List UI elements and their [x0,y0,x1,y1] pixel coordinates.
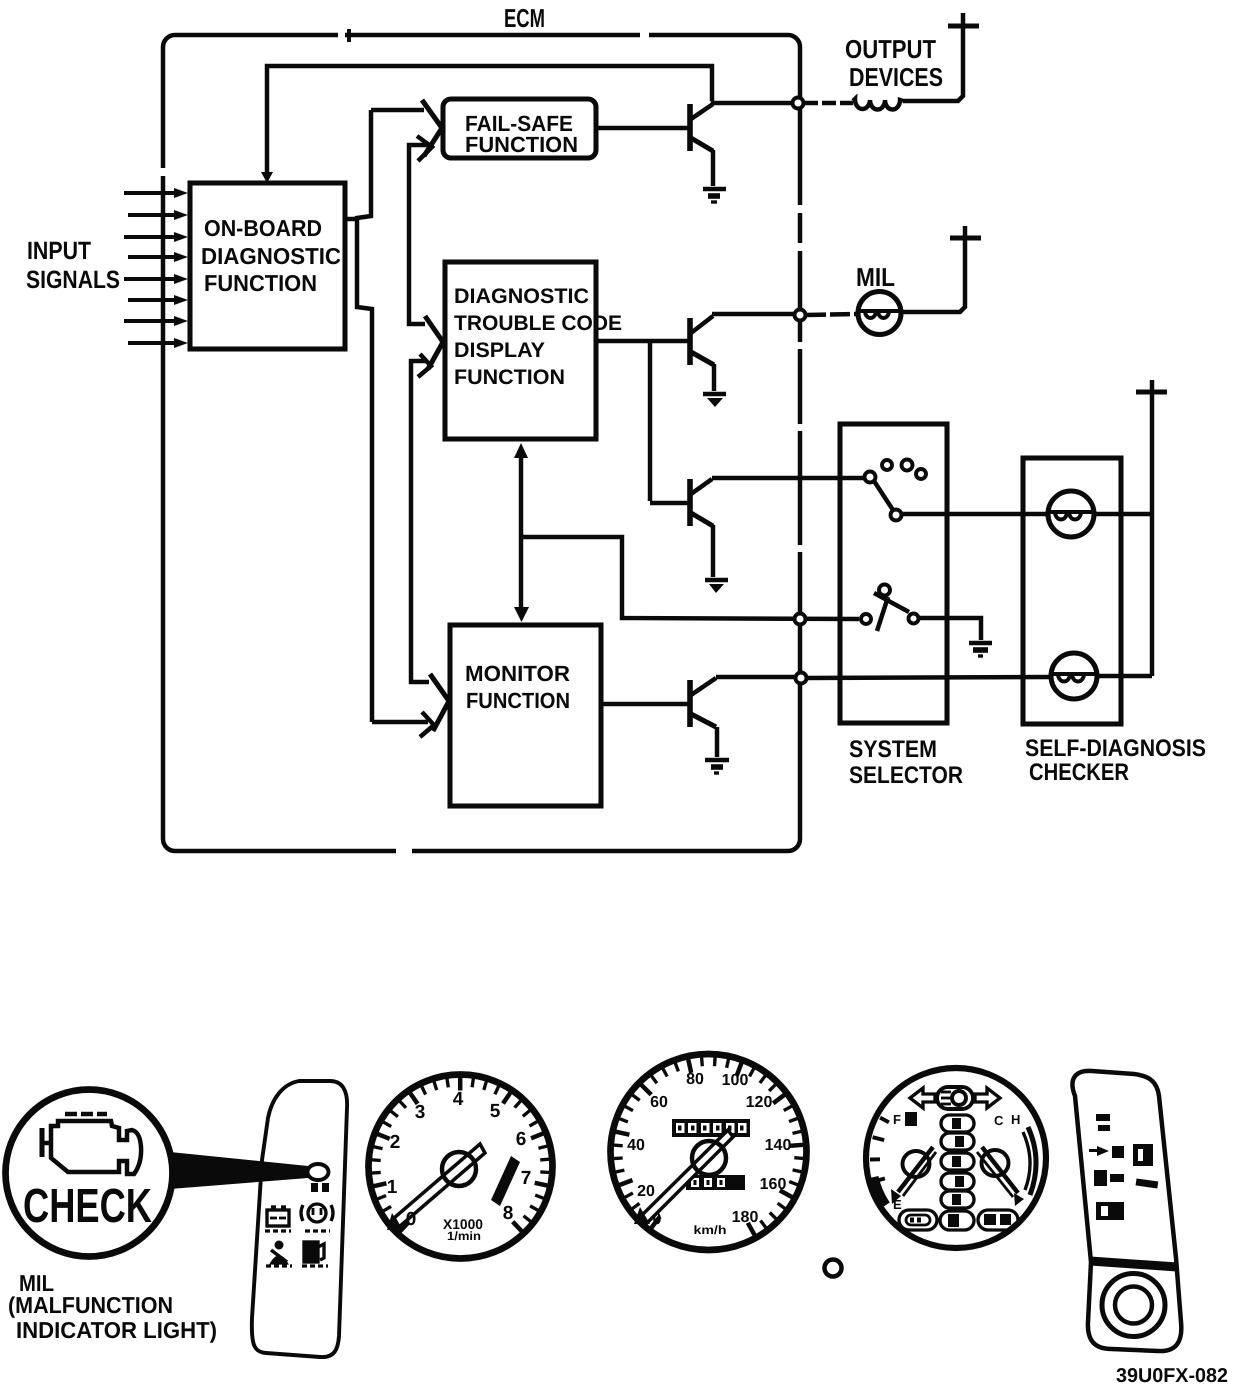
svg-text:MIL: MIL [856,262,895,292]
svg-text:OUTPUT: OUTPUT [845,34,936,64]
svg-text:40: 40 [627,1137,645,1154]
svg-text:H: H [1011,1112,1020,1127]
svg-text:FUNCTION: FUNCTION [454,366,565,389]
svg-text:DIAGNOSTIC: DIAGNOSTIC [201,243,341,269]
svg-text:0: 0 [406,1209,417,1230]
svg-text:km/h: km/h [694,1223,727,1237]
svg-text:0: 0 [653,1211,662,1228]
svg-text:DISPLAY: DISPLAY [454,339,545,362]
svg-text:SIGNALS: SIGNALS [26,266,120,294]
svg-text:SELF-DIAGNOSIS: SELF-DIAGNOSIS [1025,735,1206,762]
svg-text:1: 1 [387,1177,398,1198]
svg-text:INPUT: INPUT [27,237,91,265]
svg-text:20: 20 [637,1183,655,1200]
svg-text:CHECK: CHECK [23,1180,152,1233]
svg-text:SYSTEM: SYSTEM [849,736,937,763]
svg-text:7: 7 [521,1168,532,1189]
svg-text:C: C [994,1113,1004,1128]
svg-text:8: 8 [503,1203,514,1224]
svg-text:TROUBLE CODE: TROUBLE CODE [454,312,622,335]
svg-text:MONITOR: MONITOR [465,661,570,686]
svg-text:FUNCTION: FUNCTION [465,132,578,157]
svg-text:2: 2 [390,1132,401,1153]
svg-text:DIAGNOSTIC: DIAGNOSTIC [454,285,589,308]
svg-text:80: 80 [686,1071,704,1088]
svg-text:ECM: ECM [504,3,545,33]
svg-text:180: 180 [732,1209,759,1226]
svg-text:120: 120 [746,1094,773,1111]
svg-text:140: 140 [765,1137,792,1154]
svg-text:(MALFUNCTION: (MALFUNCTION [8,1292,173,1318]
svg-text:FUNCTION: FUNCTION [466,688,570,713]
svg-text:DEVICES: DEVICES [849,62,943,92]
svg-text:CHECKER: CHECKER [1029,759,1129,786]
svg-text:3: 3 [415,1102,426,1123]
svg-text:SELECTOR: SELECTOR [849,762,963,789]
svg-text:4: 4 [453,1089,464,1110]
svg-text:39U0FX-082: 39U0FX-082 [1116,1365,1228,1387]
svg-text:100: 100 [722,1072,749,1089]
svg-text:160: 160 [760,1176,787,1193]
svg-text:60: 60 [650,1094,668,1111]
svg-text:1/min: 1/min [447,1229,481,1243]
svg-text:6: 6 [516,1129,527,1150]
svg-text:F: F [893,1112,901,1127]
svg-text:FUNCTION: FUNCTION [204,270,317,296]
svg-text:ON-BOARD: ON-BOARD [204,215,322,241]
svg-text:5: 5 [490,1101,501,1122]
svg-text:INDICATOR LIGHT): INDICATOR LIGHT) [16,1317,217,1343]
